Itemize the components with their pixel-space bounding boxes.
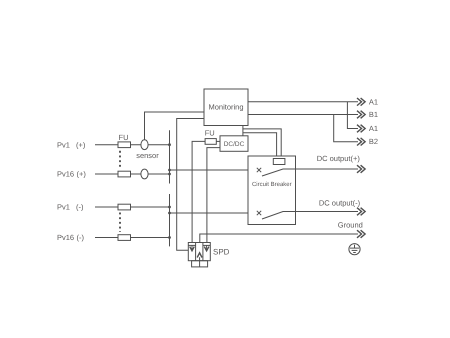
minus busbar — [169, 194, 171, 246]
DC/DC converter U2 — [220, 136, 248, 152]
svg-text:(+): (+) — [77, 170, 87, 179]
svg-text:A1: A1 — [369, 124, 378, 133]
svg-text:(-): (-) — [77, 233, 85, 242]
fuse FU2 (Pv16+) — [118, 171, 131, 177]
breaker upper contact X — [257, 168, 261, 172]
wire RS485 A1 — [248, 101, 358, 103]
svg-text:DC output(-): DC output(-) — [319, 198, 361, 207]
svg-text:DC/DC: DC/DC — [224, 141, 245, 148]
wire sensor to monitoring — [145, 112, 205, 140]
svg-text:B2: B2 — [369, 137, 378, 146]
svg-text:SPD: SPD — [213, 247, 230, 256]
svg-text:A1: A1 — [369, 97, 378, 106]
wire control A to breaker terminal — [243, 129, 281, 159]
arrow A1 second — [357, 125, 365, 133]
arrow B1 — [357, 111, 365, 119]
fuse FU5 (DC/DC supply) — [192, 141, 205, 242]
breaker upper blade — [262, 169, 296, 176]
surge protector SPD — [188, 243, 210, 267]
wire DC/DC to SPD module — [207, 148, 220, 243]
svg-text:FU: FU — [119, 133, 129, 142]
wire RS485 A1 second — [347, 102, 358, 129]
arrow DC output(+) — [357, 165, 365, 173]
sensor CT1 — [141, 140, 148, 150]
node junction breaker feed - — [168, 212, 171, 215]
wire Pv1(-) row — [95, 206, 170, 208]
svg-text:Pv16: Pv16 — [57, 170, 74, 179]
breaker lower blade — [262, 212, 296, 220]
node junction breaker feed + — [168, 169, 171, 172]
sensor CT2 — [141, 169, 148, 179]
node junction Pv1+ — [168, 143, 171, 146]
monitoring unit U1 — [204, 89, 248, 126]
breaker shunt terminal — [273, 159, 285, 165]
svg-text:(-): (-) — [76, 203, 84, 212]
circuit breaker CB1 — [248, 156, 296, 225]
node junction Pv16- — [168, 236, 171, 239]
svg-text:B1: B1 — [369, 110, 378, 119]
wire DC output(+) — [296, 168, 359, 170]
wire Pv16(-) row — [95, 237, 170, 239]
arrow DC output(-) — [357, 208, 365, 216]
svg-text:Pv16: Pv16 — [57, 233, 74, 242]
wire fuse to DC/DC — [216, 140, 220, 142]
svg-text:Pv1: Pv1 — [57, 203, 70, 212]
wire control B to breaker terminal — [243, 133, 277, 159]
svg-text:sensor: sensor — [136, 151, 159, 160]
wire minus bus to breaker lower contact — [170, 212, 258, 214]
dotted continuation between minus fuses — [119, 213, 121, 233]
ground symbol PE — [349, 244, 360, 255]
wire plus bus to breaker upper contact — [170, 169, 258, 171]
wire RS485 B2 — [334, 115, 358, 142]
svg-text:Pv1: Pv1 — [57, 140, 70, 149]
svg-text:Monitoring: Monitoring — [208, 102, 243, 111]
wire Pv1(+) row — [95, 144, 170, 146]
wire monitoring to SPD module — [177, 119, 204, 251]
wire Pv16(+) row — [95, 173, 170, 175]
wire ground net — [200, 234, 358, 243]
svg-text:Circuit Breaker: Circuit Breaker — [252, 181, 292, 188]
wire DC output(-) — [296, 211, 359, 213]
node junction Pv1- — [168, 206, 171, 209]
fuse FU1 (Pv1+) — [118, 142, 131, 148]
node junction Pv16+ — [168, 173, 171, 176]
SPD base box — [192, 261, 208, 267]
svg-text:(+): (+) — [76, 140, 86, 149]
dotted continuation between plus fuses — [119, 151, 121, 169]
svg-text:DC output(+): DC output(+) — [317, 154, 361, 163]
fuse FU3 (Pv1-) — [118, 204, 131, 210]
arrow B2 — [357, 138, 365, 146]
plus busbar — [169, 130, 171, 183]
breaker lower contact X — [257, 211, 261, 215]
arrow A1 — [357, 98, 365, 106]
svg-text:Ground: Ground — [338, 220, 363, 229]
fuse FU4 (Pv16-) — [118, 235, 131, 241]
wire RS485 B1 — [248, 114, 358, 116]
wire monitoring to DC/DC — [242, 126, 244, 136]
arrow Ground — [357, 230, 365, 238]
svg-text:FU: FU — [205, 129, 215, 138]
